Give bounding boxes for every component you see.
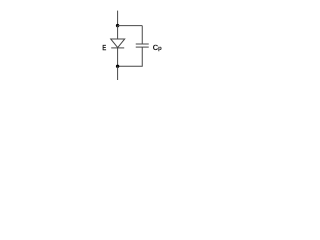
- wire: capacitor branch lower segment: [118, 47, 143, 66]
- wire: bottom terminal stub: [117, 66, 119, 80]
- wire: diode branch upper segment: [117, 26, 119, 39]
- label E: [103, 45, 106, 50]
- node: top junction dot: [116, 24, 119, 27]
- diode E: triangle (anode): [111, 39, 125, 48]
- wire: diode branch lower segment: [117, 48, 119, 66]
- capacitor Cp: plates: [136, 44, 149, 47]
- wire: top rail from junction to capacitor branch: [118, 25, 143, 27]
- wire: capacitor branch upper segment: [141, 26, 143, 44]
- wire: top terminal stub: [117, 11, 119, 26]
- label Cp: [153, 45, 161, 52]
- node: bottom junction dot: [116, 65, 119, 68]
- diode E: cathode bar: [111, 47, 124, 49]
